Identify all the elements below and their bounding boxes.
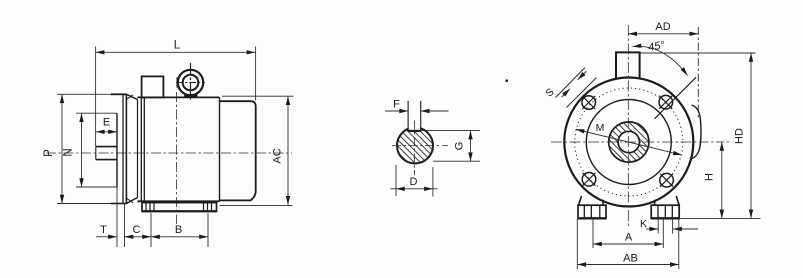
box top extension to HD bbox=[640, 52, 756, 54]
45 degree line through bolt hole bbox=[655, 77, 697, 119]
dimension D line bbox=[391, 188, 438, 190]
shaft section hatch bbox=[397, 128, 432, 163]
right foot (front view) bbox=[651, 196, 679, 219]
side lug on flange bbox=[692, 105, 702, 159]
dimension AD line bbox=[628, 33, 698, 35]
dimension HD line bbox=[750, 53, 752, 218]
section centerline vertical bbox=[413, 121, 415, 176]
svg-text:D: D bbox=[410, 176, 418, 188]
terminal box (front view) bbox=[616, 52, 640, 79]
left view horizontal centerline bbox=[46, 152, 292, 154]
hub outer circle bbox=[609, 122, 649, 162]
dimension N line bbox=[81, 113, 83, 187]
A extension lines bbox=[593, 219, 663, 249]
svg-text:45°: 45° bbox=[647, 39, 666, 54]
flange chamfer bottom bbox=[126, 198, 137, 204]
inner bracket circle bbox=[586, 100, 671, 185]
dimension P line bbox=[61, 94, 63, 203]
dimension S arrows bbox=[562, 71, 587, 97]
svg-text:L: L bbox=[174, 40, 181, 52]
foot slot lines left bbox=[146, 203, 154, 212]
dimension C line bbox=[125, 236, 152, 238]
B extension lines bbox=[151, 213, 208, 247]
dimension AC line bbox=[287, 96, 289, 205]
spigot face bbox=[116, 113, 118, 187]
dimension M line bbox=[576, 129, 682, 155]
svg-text:C: C bbox=[133, 224, 141, 236]
dimension B line bbox=[151, 236, 208, 238]
section centerline horizontal bbox=[392, 145, 448, 147]
dimension E line bbox=[96, 131, 117, 133]
P top extension bbox=[57, 93, 112, 95]
keyway slot walls bbox=[408, 101, 421, 131]
H extension from centerline bbox=[701, 141, 730, 143]
svg-text:T: T bbox=[100, 224, 107, 236]
D extension lines bbox=[396, 165, 433, 197]
foot slot lines right bbox=[204, 203, 212, 212]
AD right extension (dash-dot) bbox=[697, 27, 699, 118]
dimension T arrow bbox=[96, 236, 117, 238]
L right extension line bbox=[255, 47, 257, 101]
fan cowl bbox=[220, 101, 256, 200]
dimension H line bbox=[721, 142, 723, 218]
feet bottom extension bbox=[680, 217, 761, 219]
shaft hole circle bbox=[618, 131, 639, 152]
bolt hole bottom-right bbox=[660, 173, 674, 187]
svg-text:AD: AD bbox=[655, 21, 670, 33]
N bottom extension bbox=[76, 186, 117, 188]
flange chamfer top bbox=[126, 94, 137, 99]
45 degree arc with arrows bbox=[633, 46, 688, 75]
hub hatch ring bbox=[609, 122, 649, 162]
left view vertical centerline bbox=[176, 92, 178, 224]
eyebolt centerline vertical bbox=[190, 63, 192, 101]
svg-text:G: G bbox=[454, 142, 466, 151]
svg-text:N: N bbox=[63, 148, 75, 156]
flange plate bbox=[111, 94, 126, 203]
svg-text:S: S bbox=[543, 86, 556, 100]
P bottom extension bbox=[57, 203, 112, 205]
dimension K arrows bbox=[646, 228, 698, 230]
foot pad (side view) bbox=[142, 203, 217, 212]
svg-text:A: A bbox=[625, 232, 633, 244]
dimension S tangent lines bbox=[556, 68, 597, 108]
end bracket joint (double line) bbox=[138, 98, 145, 202]
svg-text:AC: AC bbox=[272, 148, 284, 163]
terminal box (side view) bbox=[142, 76, 164, 97]
bolt hole bottom-left bbox=[582, 173, 596, 187]
N top extension bbox=[76, 112, 117, 114]
svg-text:F: F bbox=[393, 99, 400, 111]
dimension F arrows bbox=[385, 110, 449, 112]
svg-text:AB: AB bbox=[623, 253, 638, 265]
dimension G line bbox=[470, 131, 472, 162]
svg-text:H: H bbox=[704, 173, 716, 181]
shaft section circle bbox=[397, 128, 433, 164]
outer flange circle bbox=[564, 78, 693, 207]
AB extension lines bbox=[577, 219, 679, 270]
motor body (side view) bbox=[138, 97, 220, 201]
svg-text:M: M bbox=[596, 122, 605, 134]
L left extension line bbox=[95, 47, 97, 147]
keyway slot blank bbox=[409, 112, 420, 130]
svg-text:B: B bbox=[175, 224, 182, 236]
right view horizontal centerline bbox=[551, 141, 700, 143]
K extension lines bbox=[658, 219, 672, 234]
eyebolt bbox=[178, 70, 203, 95]
T extension lines bbox=[117, 187, 125, 247]
svg-text:K: K bbox=[640, 218, 647, 230]
stray dot bbox=[505, 79, 508, 82]
dimension AB line bbox=[577, 264, 679, 266]
bolt hole top-right bbox=[659, 95, 673, 109]
svg-text:E: E bbox=[103, 117, 110, 129]
left foot (front view) bbox=[578, 196, 606, 219]
keyway slot bottom bbox=[408, 130, 422, 132]
AC top extension bbox=[222, 95, 294, 97]
dimension L line bbox=[96, 51, 256, 53]
eyebolt centerline horizontal bbox=[176, 82, 205, 84]
dimension A line bbox=[593, 243, 663, 245]
baseline extension right of foot bbox=[220, 204, 293, 206]
bolt circle (dotted) bbox=[575, 88, 683, 196]
svg-text:HD: HD bbox=[734, 128, 746, 144]
bolt hole top-left bbox=[582, 96, 596, 110]
G extension lines bbox=[422, 131, 481, 162]
eyebolt boss bbox=[184, 94, 197, 97]
right view vertical centerline bbox=[627, 25, 629, 226]
shaft bbox=[96, 147, 117, 160]
